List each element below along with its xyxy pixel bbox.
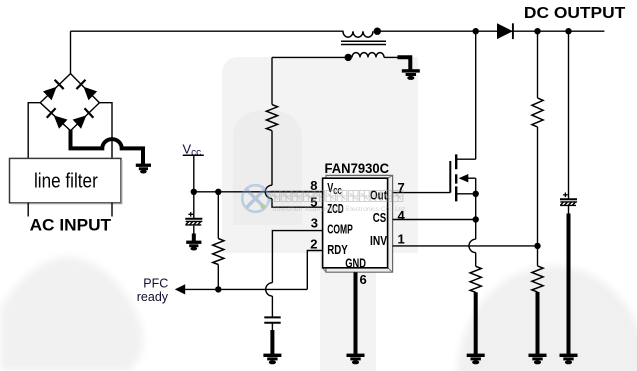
ground IC: [347, 354, 365, 365]
label DC OUTPUT: [524, 5, 626, 22]
watermark CJK text row: [270, 191, 403, 202]
svg-text:GND: GND: [345, 255, 366, 270]
watermark dome bottom-right: [457, 266, 637, 371]
watermark english text: [272, 206, 407, 213]
wire Vcc to resistor: [217, 192, 219, 239]
thick wire secondary to ground: [398, 57, 411, 70]
svg-text:Shenzhen Xuanyisheng Electroni: Shenzhen Xuanyisheng Electronics Co., Lt…: [272, 206, 407, 213]
label PFC ready: [137, 277, 169, 304]
pin number 6: [360, 272, 367, 287]
svg-text:2: 2: [310, 236, 317, 251]
wire bridge top to rail: [70, 31, 72, 73]
watermark logo circle: [242, 185, 269, 212]
ground CS resistor: [467, 354, 485, 365]
wire top rail: [71, 30, 605, 32]
junction divider rail: [534, 28, 540, 34]
svg-text:INV: INV: [370, 233, 387, 248]
wire hop ZCD over Vcc wire: [265, 185, 272, 198]
junction source node: [473, 191, 479, 197]
wire output cap to ground: [568, 206, 570, 216]
wire bridge right vertex to line filter: [99, 103, 112, 159]
wire drain riser: [475, 31, 477, 159]
capacitor output (polarized): [560, 193, 577, 206]
resistor Vcc-RDY pullup: [213, 239, 224, 265]
wire hop to CS resistor: [475, 253, 477, 267]
wire AC terminal left: [27, 203, 29, 217]
svg-text:3: 3: [311, 216, 318, 231]
junction CS: [473, 216, 479, 222]
pin label CS: [373, 210, 387, 225]
wire INV pin 1: [393, 245, 537, 247]
arrow PFC ready: [175, 284, 185, 294]
svg-text:AC INPUT: AC INPUT: [30, 216, 112, 234]
wire Vcc node to pin 8: [194, 191, 323, 193]
pin label RDY: [327, 242, 348, 257]
ground divider: [529, 354, 547, 365]
ground secondary: [402, 69, 420, 80]
wire divider upper: [537, 31, 539, 98]
pin label COMP: [327, 222, 353, 237]
label FAN7930C: [325, 160, 390, 176]
IC front face: [323, 178, 388, 268]
pin number 4: [398, 208, 406, 223]
wire source to hop: [475, 194, 477, 239]
resistor CS sense: [470, 266, 481, 292]
diode bridge top-right: [76, 80, 97, 101]
junction Vcc resistor: [215, 189, 221, 195]
wire COMP cap to ground: [271, 323, 273, 332]
wire CS resistor to ground: [474, 292, 478, 354]
diode bridge bottom-right: [72, 108, 93, 129]
ground AC return: [136, 164, 151, 174]
wire RDY riser: [307, 251, 322, 290]
pin label Out: [370, 187, 388, 202]
wire ZCD riser lower: [271, 131, 273, 186]
watermark blob bottom-left: [0, 257, 143, 371]
wire divider to ground: [536, 292, 540, 355]
svg-text:6: 6: [360, 272, 367, 287]
resistor divider upper: [532, 98, 543, 127]
watermark dome small: [233, 110, 302, 225]
svg-text:COMP: COMP: [327, 222, 353, 237]
wire secondary right: [384, 56, 398, 58]
capacitor COMP: [264, 317, 280, 322]
junction PFC resistor: [215, 286, 221, 292]
pin label INV: [370, 233, 387, 248]
ground Vcc cap: [186, 241, 201, 251]
wire ZCD to pin 5: [272, 199, 323, 208]
pin number 7: [398, 180, 405, 195]
junction INV: [534, 243, 540, 249]
junction Vcc cap: [191, 189, 197, 195]
wire PFC ready line: [184, 288, 307, 290]
junction output cap rail: [565, 28, 571, 34]
capacitor Vcc (polarized): [185, 212, 202, 225]
wire Vcc cap lead: [193, 192, 195, 219]
wire hop COMP over PFC line: [266, 283, 273, 296]
node Vcc label: [183, 141, 202, 158]
IC 3D back face: [323, 175, 393, 272]
pin number 5: [310, 195, 317, 210]
polarity dot secondary: [345, 54, 352, 61]
svg-text:DC OUTPUT: DC OUTPUT: [524, 5, 626, 22]
line filter box: [10, 158, 122, 203]
pin number 2: [310, 236, 317, 251]
thick AC return wire with hop: [71, 130, 144, 165]
transformer core: [341, 41, 386, 44]
pin number 3: [311, 216, 318, 231]
wire gate pin 7: [393, 192, 451, 194]
label AC INPUT: [30, 216, 112, 234]
inductor secondary winding: [352, 53, 384, 58]
pin number 8: [310, 178, 317, 193]
wire AC terminal right: [111, 203, 113, 217]
label line filter: [34, 171, 98, 193]
ground output cap: [560, 354, 578, 365]
polarity dot primary: [374, 28, 381, 35]
inductor primary winding: [343, 31, 373, 37]
svg-text:FAN7930C: FAN7930C: [325, 160, 390, 176]
bridge rectifier diamond BD1: [40, 74, 99, 131]
ground COMP cap: [263, 354, 281, 365]
diode bridge bottom-left: [47, 108, 68, 129]
wire COMP to cap: [271, 296, 273, 317]
wire CS pin 4: [393, 219, 476, 221]
wire GND pin 6: [354, 272, 358, 354]
pin number 1: [398, 232, 405, 247]
wire hop CS over INV line: [469, 239, 476, 252]
svg-text:PFC: PFC: [143, 277, 168, 291]
svg-text:ready: ready: [137, 290, 169, 304]
resistor divider lower: [532, 266, 543, 292]
diode boost output: [497, 23, 513, 39]
pin label GND: [345, 255, 366, 270]
wire bridge left vertex to line filter: [28, 103, 40, 159]
transistor Q1 MOSFET: [450, 154, 475, 201]
svg-text:line filter: line filter: [34, 171, 98, 193]
resistor ZCD: [266, 105, 277, 131]
wire COMP pin 3: [272, 231, 322, 283]
wire secondary to ZCD: [272, 56, 348, 58]
wire ZCD riser upper: [271, 57, 273, 104]
wire resistor to PFC line: [217, 265, 219, 290]
Vcc terminal bar: [183, 154, 204, 156]
pin label ZCD: [327, 201, 344, 216]
wire Vcc cap to ground: [193, 226, 195, 235]
junction drain rail: [473, 28, 479, 34]
wire Vcc down: [193, 155, 195, 192]
pin label Vcc: [327, 181, 342, 196]
wire output cap upper: [568, 31, 570, 199]
wire divider middle: [537, 127, 539, 266]
watermark gray block center: [222, 57, 418, 371]
svg-text:1: 1: [398, 232, 405, 247]
diode bridge top-left: [43, 80, 64, 101]
